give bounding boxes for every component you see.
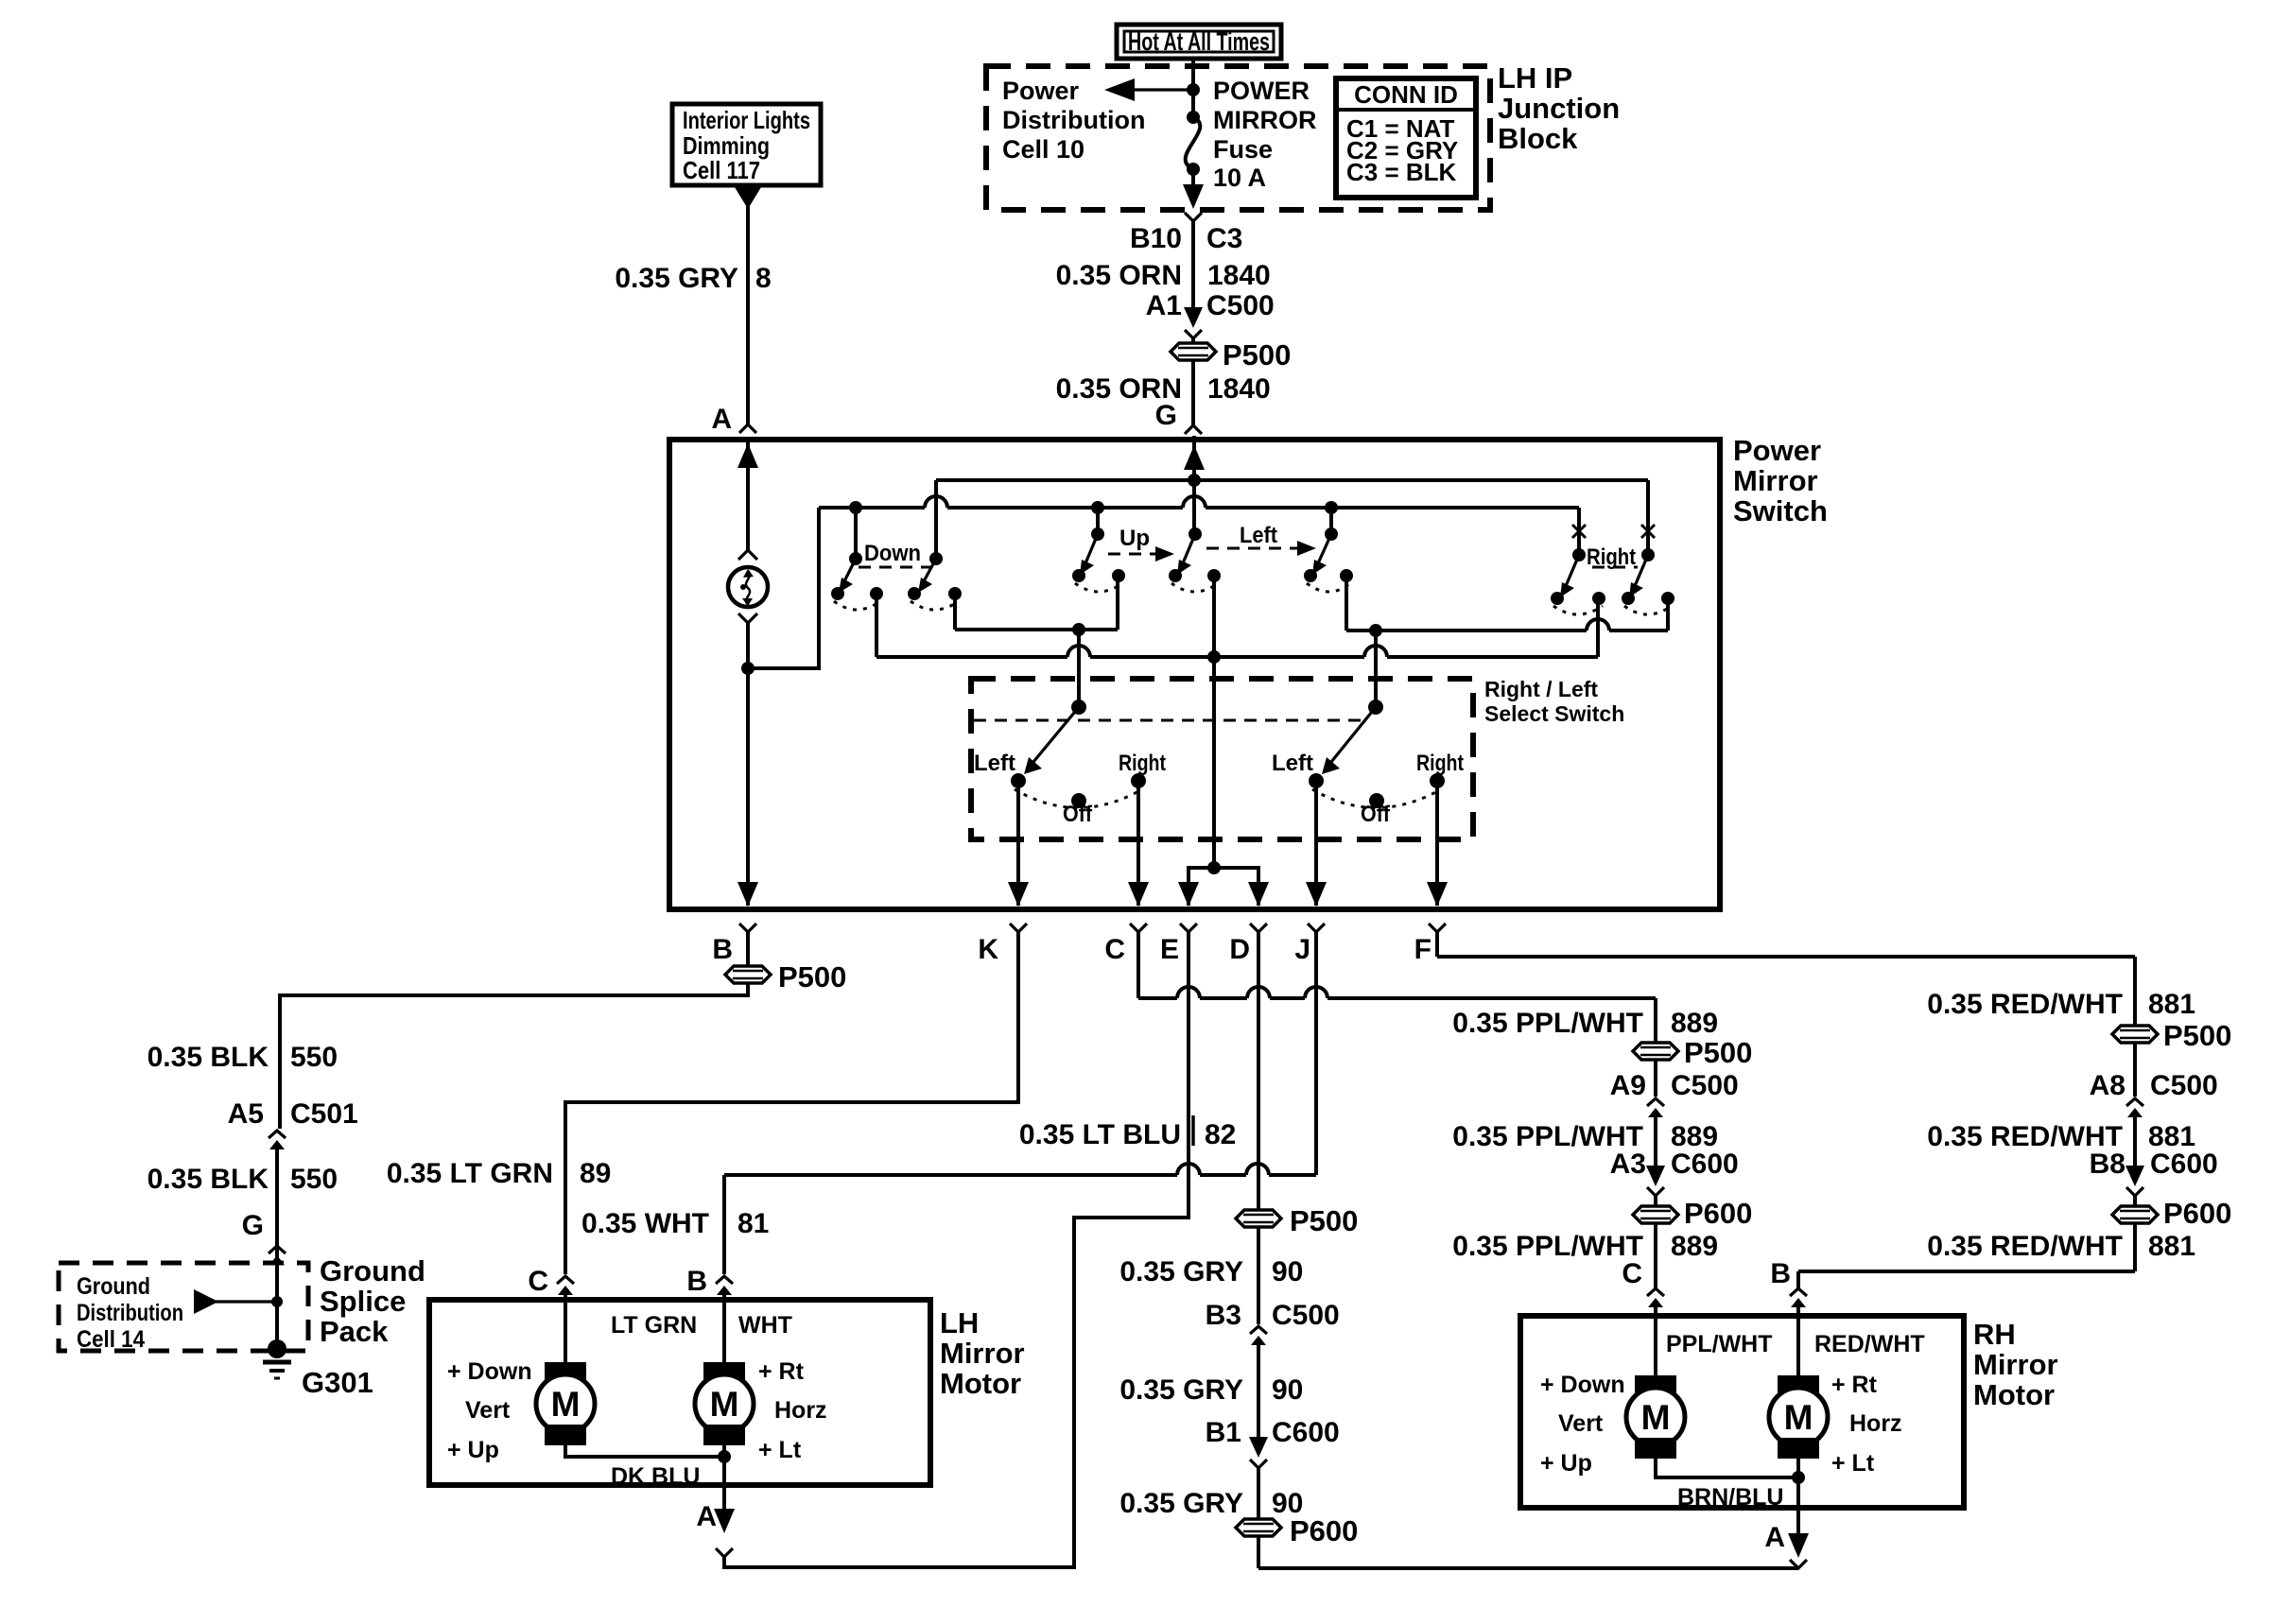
svg-text:C: C — [528, 1266, 548, 1297]
svg-text:C600: C600 — [1671, 1149, 1739, 1180]
svg-text:Distribution: Distribution — [77, 1300, 183, 1326]
svg-text:90: 90 — [1272, 1256, 1303, 1287]
label B1 C600 — [1206, 1417, 1340, 1448]
label B10 C3 / 0.35 ORN 1840 / A1 C500 — [1056, 223, 1275, 321]
label 0.35 GRY 90 (1) — [1119, 1256, 1303, 1287]
connector C600 pin B1 — [1249, 1437, 1268, 1468]
svg-text:Splice: Splice — [320, 1285, 406, 1318]
svg-text:G: G — [1155, 400, 1177, 431]
Right / Left Select Switch dashed box — [971, 679, 1473, 839]
switch: center pole (G fed) — [1169, 527, 1221, 592]
svg-text:Mirror: Mirror — [1973, 1348, 2058, 1381]
wire: lamp to pin B — [737, 613, 758, 907]
node: G feed on upper bus — [1184, 436, 1205, 534]
svg-text:8: 8 — [755, 263, 772, 294]
svg-text:P600: P600 — [2163, 1197, 2231, 1230]
svg-text:0.35 BLK: 0.35 BLK — [147, 1164, 269, 1195]
svg-text:0.35 GRY: 0.35 GRY — [1119, 1488, 1243, 1519]
switch: Down pole 1 — [831, 501, 883, 610]
label RH Mirror Motor — [1973, 1318, 2058, 1411]
connector C600 pin A3 — [1646, 1166, 1665, 1196]
svg-text:Right: Right — [1416, 751, 1464, 776]
svg-text:E: E — [1160, 934, 1179, 965]
labels output pins B K C E D J F — [712, 934, 1431, 965]
wire 889 PPL/WHT: pin C to RH vert motor — [1138, 932, 1656, 1375]
svg-text:0.35 PPL/WHT: 0.35 PPL/WHT — [1452, 1231, 1643, 1262]
svg-text:Hot At All Times: Hot At All Times — [1128, 27, 1270, 56]
svg-text:1840: 1840 — [1207, 260, 1271, 291]
svg-text:A: A — [711, 404, 732, 435]
svg-text:Distribution: Distribution — [1002, 106, 1145, 134]
mechanical link: Right pair — [1592, 566, 1638, 569]
svg-text:B10: B10 — [1130, 223, 1182, 254]
svg-text:B1: B1 — [1206, 1417, 1241, 1448]
svg-text:CONN ID: CONN ID — [1354, 80, 1458, 109]
svg-text:B3: B3 — [1206, 1300, 1241, 1331]
connector: switch pin A — [739, 424, 756, 433]
svg-text:A5: A5 — [228, 1098, 264, 1130]
svg-text:LH IP: LH IP — [1498, 61, 1572, 95]
grommet P500 on B wire — [725, 932, 846, 993]
svg-text:+ Lt: + Lt — [1831, 1450, 1875, 1477]
Hot At All Times box — [1117, 25, 1281, 59]
label POWER MIRROR Fuse 10 A — [1213, 77, 1317, 192]
svg-text:B: B — [686, 1266, 707, 1297]
wire 82 LT BLU / 81 WHT: pin J to LH horz motor — [724, 932, 1316, 1274]
svg-text:Cell 14: Cell 14 — [77, 1326, 145, 1353]
bus: supply bus lower — [819, 496, 1579, 555]
svg-text:889: 889 — [1671, 1008, 1718, 1039]
svg-text:POWER: POWER — [1213, 77, 1310, 105]
wire BRN/BLU common — [1656, 1459, 1805, 1511]
svg-text:889: 889 — [1671, 1231, 1718, 1262]
wire: battery feed into junction block — [1191, 59, 1195, 90]
svg-text:B8: B8 — [2090, 1149, 2126, 1180]
node: lamp ground junction — [741, 662, 755, 675]
wire DK BLU common — [565, 1445, 731, 1490]
label LH IP Junction Block — [1498, 61, 1620, 155]
svg-text:+ Up: + Up — [1540, 1450, 1592, 1477]
svg-text:LT GRN: LT GRN — [611, 1312, 697, 1339]
svg-text:0.35 GRY: 0.35 GRY — [615, 263, 738, 294]
svg-text:F: F — [1414, 934, 1431, 965]
wire 550 BLK: P500 to C501 — [280, 983, 748, 1129]
connector RH motor pin B — [1790, 1288, 1807, 1307]
svg-text:Switch: Switch — [1733, 494, 1828, 527]
select switch 1 — [974, 700, 1166, 827]
svg-text:MIRROR: MIRROR — [1213, 106, 1317, 134]
Power Mirror Switch box — [669, 440, 1720, 909]
label Power Mirror Switch — [1733, 434, 1828, 527]
wire: select1 Left to pin K — [1008, 781, 1029, 907]
svg-text:Ground: Ground — [320, 1254, 425, 1287]
svg-text:P500: P500 — [1290, 1204, 1358, 1237]
wire: pin A to illumination lamp — [737, 440, 758, 560]
wire: RH pin A output — [1788, 1459, 1809, 1568]
svg-text:Motor: Motor — [940, 1367, 1021, 1400]
svg-text:0.35 PPL/WHT: 0.35 PPL/WHT — [1452, 1008, 1643, 1039]
svg-text:C501: C501 — [290, 1098, 358, 1130]
label A8 C500 — [2090, 1070, 2218, 1101]
svg-text:Mirror: Mirror — [940, 1337, 1025, 1370]
svg-text:C500: C500 — [1206, 290, 1275, 321]
labels PPL/WHT RED/WHT inside RH box — [1666, 1331, 1925, 1357]
svg-text:0.35 WHT: 0.35 WHT — [581, 1208, 709, 1239]
grommet P500 (feed) — [1171, 338, 1291, 371]
svg-text:Off: Off — [1361, 802, 1391, 827]
connectors at switch outputs — [739, 924, 1446, 932]
LH IP Junction Block dashed box — [986, 66, 1490, 210]
svg-text:P500: P500 — [2163, 1019, 2231, 1052]
mechanical link: select switches — [974, 719, 1369, 722]
wire: collector Ha2 (Left/Right2 to select 2) — [1346, 576, 1668, 707]
svg-text:Motor: Motor — [1973, 1378, 2055, 1411]
svg-text:Off: Off — [1063, 802, 1093, 827]
wire 89 LT GRN: pin K to LH vert motor — [565, 932, 1018, 1274]
fuse: POWER MIRROR Fuse 10 A — [1186, 90, 1201, 176]
svg-text:Ground: Ground — [77, 1273, 150, 1300]
svg-text:A1: A1 — [1146, 290, 1182, 321]
wire: center pole output riser — [1212, 576, 1216, 868]
switch: Right pole 2 — [1622, 525, 1674, 614]
svg-text:+ Down: + Down — [447, 1358, 532, 1385]
CONN ID table — [1336, 78, 1476, 198]
connector C500 pin A9 — [1647, 1098, 1664, 1117]
svg-text:0.35 LT BLU: 0.35 LT BLU — [1019, 1119, 1181, 1150]
connector LH motor pin B — [716, 1276, 733, 1295]
grommet P600 on PPL/WHT — [1633, 1197, 1752, 1230]
svg-text:Junction: Junction — [1498, 92, 1620, 125]
svg-text:Interior Lights: Interior Lights — [683, 106, 810, 134]
svg-text:0.35 GRY: 0.35 GRY — [1119, 1256, 1243, 1287]
label Ground Distribution Cell 14 — [77, 1273, 183, 1353]
connector: switch pin G — [1185, 425, 1202, 434]
svg-text:82: 82 — [1205, 1119, 1236, 1150]
lamp: switch illumination — [728, 567, 768, 607]
label 0.35 LT BLU 82 — [1019, 1115, 1237, 1150]
wire: ground distribution branch — [194, 1289, 283, 1314]
svg-text:Right / Left: Right / Left — [1484, 677, 1598, 701]
svg-text:RED/WHT: RED/WHT — [1814, 1331, 1925, 1357]
svg-text:Left: Left — [974, 751, 1015, 776]
svg-text:C500: C500 — [2150, 1070, 2218, 1101]
connector C600 pin B8 — [2126, 1166, 2144, 1196]
svg-text:Cell 10: Cell 10 — [1002, 135, 1084, 164]
svg-text:89: 89 — [580, 1158, 611, 1189]
motor LH vertical — [536, 1291, 595, 1445]
label 0.35 PPL/WHT 889 (2) — [1452, 1121, 1718, 1152]
svg-text:G301: G301 — [302, 1366, 373, 1399]
labels RH motor functions — [1540, 1372, 1902, 1477]
svg-text:A3: A3 — [1610, 1149, 1646, 1180]
svg-text:0.35 ORN: 0.35 ORN — [1056, 260, 1182, 291]
svg-text:10 A: 10 A — [1213, 164, 1266, 192]
wire 881 RED/WHT: pin F to RH horz motor — [1437, 932, 2135, 1375]
svg-text:C: C — [1622, 1258, 1642, 1289]
svg-text:Vert: Vert — [465, 1397, 511, 1424]
svg-text:Down: Down — [864, 541, 921, 566]
svg-text:C3: C3 — [1206, 223, 1242, 254]
switch: Right pole 1 — [1551, 525, 1605, 614]
svg-text:881: 881 — [2148, 989, 2195, 1020]
label A5 C501 — [228, 1098, 358, 1130]
svg-text:C600: C600 — [1272, 1417, 1340, 1448]
svg-text:P500: P500 — [1684, 1036, 1752, 1069]
mechanical link: Up to center pole — [1108, 546, 1174, 561]
svg-text:0.35 GRY: 0.35 GRY — [1119, 1374, 1243, 1406]
connector C500 pin A8 — [2126, 1098, 2143, 1117]
grommet P500 on D column — [1236, 1204, 1358, 1237]
svg-text:0.35 LT GRN: 0.35 LT GRN — [387, 1158, 553, 1189]
svg-text:Left: Left — [1240, 523, 1277, 548]
svg-text:C: C — [1104, 934, 1125, 965]
svg-text:A9: A9 — [1610, 1070, 1646, 1101]
svg-text:C500: C500 — [1671, 1070, 1739, 1101]
svg-text:90: 90 — [1272, 1374, 1303, 1406]
svg-text:D: D — [1229, 934, 1250, 965]
wire: select2 Left to pin J — [1306, 781, 1327, 907]
connector LH motor pin C — [557, 1276, 574, 1295]
label 0.35 GRY 90 (2) — [1119, 1374, 1303, 1406]
svg-text:Horz: Horz — [1849, 1410, 1902, 1437]
wire: select1 Right to pin C — [1128, 781, 1149, 907]
svg-text:0.35 BLK: 0.35 BLK — [147, 1042, 269, 1073]
wire: LH pin A to pin E — [714, 932, 1189, 1567]
label 0.35 RED/WHT 881 (3) — [1927, 1231, 2195, 1262]
svg-text:M: M — [710, 1385, 739, 1424]
mechanical link: center to Left pole — [1206, 541, 1316, 556]
labels LT GRN / WHT inside LH box — [611, 1312, 792, 1339]
label 0.35 GRY 8 — [615, 263, 771, 294]
svg-text:Select Switch: Select Switch — [1484, 701, 1624, 726]
grommet P600 on D column — [1236, 1514, 1358, 1547]
label 0.35 RED/WHT 881 (2) — [1927, 1121, 2195, 1152]
wire: collector Ha (Down2/Up to select 1) — [955, 576, 1118, 707]
label LH Mirror Motor — [940, 1306, 1025, 1400]
svg-text:WHT: WHT — [738, 1312, 792, 1339]
Interior Lights Dimming Cell 117 box — [672, 104, 821, 185]
svg-text:J: J — [1294, 934, 1310, 965]
svg-text:881: 881 — [2148, 1231, 2195, 1262]
label 0.35 LT GRN 89 — [387, 1158, 612, 1189]
svg-text:81: 81 — [737, 1208, 769, 1239]
svg-text:Horz: Horz — [774, 1397, 827, 1424]
svg-text:0.35 RED/WHT: 0.35 RED/WHT — [1927, 1231, 2123, 1262]
svg-text:P500: P500 — [1223, 338, 1291, 371]
connector: splice pack pin G — [269, 1246, 286, 1253]
motor RH vertical — [1626, 1375, 1685, 1459]
svg-text:+ Rt: + Rt — [758, 1358, 805, 1385]
svg-text:+ Down: + Down — [1540, 1372, 1625, 1398]
label Right / Left Select Switch — [1484, 677, 1624, 726]
RH Mirror Motor box — [1520, 1316, 1964, 1508]
svg-text:550: 550 — [290, 1042, 338, 1073]
svg-text:K: K — [978, 934, 998, 965]
svg-text:1840: 1840 — [1207, 373, 1271, 405]
wire 1840 ORN: P500 to switch pin G — [1191, 360, 1195, 425]
connector C3 pin B10 — [1185, 213, 1202, 221]
svg-text:A8: A8 — [2090, 1070, 2126, 1101]
select switch 2 — [1272, 700, 1464, 827]
svg-text:Vert: Vert — [1558, 1410, 1604, 1437]
label 0.35 BLK 550 (upper) — [147, 1042, 338, 1073]
label B8 C600 — [2090, 1149, 2218, 1180]
svg-text:Fuse: Fuse — [1213, 135, 1273, 164]
motor LH horizontal — [695, 1291, 754, 1445]
svg-text:Up: Up — [1119, 526, 1150, 551]
svg-text:Right: Right — [1119, 751, 1166, 776]
label 0.35 BLK 550 (lower) — [147, 1164, 338, 1195]
labels LH motor functions — [447, 1358, 827, 1463]
svg-text:BRN/BLU: BRN/BLU — [1677, 1484, 1784, 1511]
svg-text:0.35 RED/WHT: 0.35 RED/WHT — [1927, 989, 2123, 1020]
Ground Distribution Cell 14 dashed box — [59, 1263, 308, 1351]
svg-text:P600: P600 — [1290, 1514, 1358, 1547]
label 0.35 ORN 1840 / G — [1056, 373, 1271, 431]
grommet P600 on RED/WHT — [2112, 1197, 2231, 1230]
mechanical link: Down pair — [859, 566, 931, 569]
label 0.35 PPL/WHT 889 (1) — [1452, 1008, 1718, 1039]
svg-text:LH: LH — [940, 1306, 979, 1339]
grommet P500 on RED/WHT — [2112, 1019, 2231, 1052]
svg-text:+ Rt: + Rt — [1831, 1372, 1878, 1398]
svg-text:Cell 117: Cell 117 — [683, 156, 760, 184]
svg-text:C3 = BLK: C3 = BLK — [1346, 158, 1457, 186]
wire: fuse output to junction block edge — [1183, 169, 1204, 209]
wire 90 GRY: pin D column — [1257, 932, 1260, 1568]
svg-text:B: B — [712, 934, 733, 965]
bus: supply bus upper — [936, 480, 1648, 559]
label 0.35 PPL/WHT 889 (3) — [1452, 1231, 1718, 1262]
label A9 C500 — [1610, 1070, 1739, 1101]
svg-text:Mirror: Mirror — [1733, 464, 1818, 497]
label Power Distribution Cell 10 — [1002, 77, 1145, 164]
label 0.35 WHT 81 — [581, 1208, 769, 1239]
wire: power distribution branch — [1104, 78, 1193, 101]
motor RH horizontal — [1769, 1375, 1828, 1459]
connector C500 pin B3 — [1250, 1326, 1267, 1345]
label A3 C600 — [1610, 1149, 1739, 1180]
svg-text:A: A — [1764, 1522, 1785, 1553]
svg-text:Left: Left — [1272, 751, 1313, 776]
svg-text:550: 550 — [290, 1164, 338, 1195]
wire 550 BLK: C501 to splice pack — [275, 1148, 279, 1349]
svg-text:M: M — [1784, 1398, 1813, 1437]
svg-text:+ Lt: + Lt — [758, 1437, 802, 1463]
wire: collector Hb (Down1/Right1/center) — [876, 594, 1598, 664]
svg-text:Power: Power — [1002, 77, 1080, 105]
label Ground Splice Pack — [320, 1254, 425, 1348]
svg-text:PPL/WHT: PPL/WHT — [1666, 1331, 1773, 1357]
svg-text:P500: P500 — [778, 960, 846, 993]
svg-text:G: G — [242, 1210, 264, 1241]
switch: Up pole — [1072, 501, 1125, 592]
wire 8 GRY: dimming feed — [735, 187, 761, 424]
svg-text:Pack: Pack — [320, 1315, 389, 1348]
wire: goal post to pins E and D — [1178, 861, 1269, 907]
LH Mirror Motor box — [429, 1300, 930, 1485]
svg-text:P600: P600 — [1684, 1197, 1752, 1230]
wire: D column to RH pin A — [1258, 1566, 1798, 1570]
label 0.35 GRY 90 (3) — [1119, 1488, 1303, 1519]
svg-text:B: B — [1770, 1258, 1791, 1289]
wire: junction to supply bus riser — [748, 508, 819, 668]
svg-text:C600: C600 — [2150, 1149, 2218, 1180]
grommet P500 on PPL/WHT — [1633, 1036, 1752, 1069]
svg-text:RH: RH — [1973, 1318, 2016, 1351]
svg-text:Power: Power — [1733, 434, 1821, 467]
label B3 C500 — [1206, 1300, 1340, 1331]
svg-text:M: M — [1641, 1398, 1671, 1437]
wire 1840 ORN: junction block to C500 — [1191, 221, 1195, 314]
label 0.35 RED/WHT 881 (1) — [1927, 989, 2195, 1020]
svg-text:C500: C500 — [1272, 1300, 1340, 1331]
connector C500 pin A1 — [1184, 307, 1203, 338]
connector C501 pin A5 — [269, 1131, 286, 1149]
svg-text:M: M — [551, 1385, 581, 1424]
node: fuse feed junction — [1187, 83, 1200, 96]
svg-text:DK BLU: DK BLU — [611, 1463, 700, 1490]
wire: select2 Right to pin F — [1427, 781, 1448, 907]
connector RH motor pin C — [1647, 1288, 1664, 1307]
svg-text:Block: Block — [1498, 122, 1578, 155]
svg-text:+ Up: + Up — [447, 1437, 499, 1463]
switch: Down pole 2 — [908, 552, 962, 610]
svg-text:A: A — [696, 1501, 717, 1532]
splice / ground G301 — [263, 1339, 291, 1378]
switch: Left/Right pole — [1304, 501, 1353, 592]
